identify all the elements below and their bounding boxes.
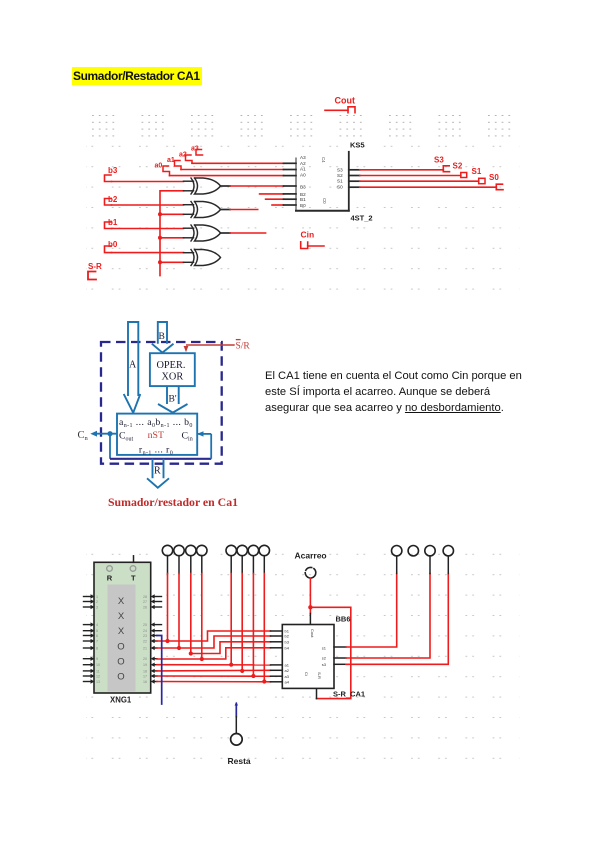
svg-text:13: 13 [96,680,100,684]
svg-text:A1: A1 [300,167,306,172]
svg-text:A2: A2 [300,161,306,166]
connector b3 [105,175,112,182]
svg-text:Cin: Cin [301,230,315,240]
wire jog to pin B0 [272,204,284,206]
svg-text:S0: S0 [337,185,343,190]
wire net8 to BB6 [157,681,271,683]
svg-text:O: O [117,642,124,653]
U5 right pin stubs [349,170,360,187]
svg-text:12: 12 [96,675,100,679]
arrow R [147,459,169,488]
svg-text:26: 26 [143,606,147,610]
svg-text:nST: nST [148,430,164,441]
terminal T10 [408,546,418,556]
svg-text:a4: a4 [285,680,290,685]
wire Cin feedback [210,434,212,459]
BB6 right pin stubs [334,647,346,664]
arrow B [152,322,174,353]
svg-text:2: 2 [96,600,98,604]
wire S/R vertical bus [160,191,184,276]
svg-text:a0: a0 [155,163,163,170]
wire b1 to gate U3 [112,228,184,230]
paragraph text [265,368,530,416]
svg-text:R: R [107,573,113,582]
wire b3 to gate U1 [112,181,184,183]
wire S0 [360,186,497,188]
terminal T7 [248,545,258,555]
svg-text:7: 7 [96,640,98,644]
connector Cout [325,107,355,113]
svg-text:B1: B1 [300,197,306,202]
terminal Acarreo [305,567,316,578]
xor gate U2 [184,202,221,218]
connector Cin [301,242,308,249]
connector S0 [496,184,503,190]
chip XNG1 body [94,562,151,693]
svg-text:R: R [154,466,161,477]
wire b0 to gate U4 [112,252,184,254]
connector b1 [105,222,112,229]
arrow A [124,322,141,413]
svg-text:O: O [117,657,124,668]
terminal T11 [425,546,435,556]
svg-text:a1: a1 [167,157,175,164]
wire net6 to BB6 [157,669,271,672]
junction dots [165,639,266,684]
XNG1 right pins [154,597,162,682]
svg-text:X: X [118,596,125,607]
terminal T4 [197,545,207,555]
svg-text:C4: C4 [321,157,326,163]
svg-text:X: X [118,626,125,637]
wire U2 output jog to pin B2 [221,209,231,211]
junction dots on S/R bus [158,212,162,264]
svg-text:5: 5 [96,629,98,633]
svg-text:A0: A0 [300,172,306,177]
terminal stems [168,556,265,574]
wire Cout feedback [96,433,117,435]
terminal T3 [186,545,196,555]
connector b0 [105,246,112,253]
wire acarreo around BB6 to S-R pin [310,607,350,698]
svg-text:25: 25 [143,623,147,627]
wire feedback bottom [110,458,211,460]
svg-text:B0: B0 [300,203,306,208]
terminal T9 [392,546,402,556]
wire acarreo to BB6 top pin [309,607,311,613]
connector a3 [196,150,203,156]
svg-text:B2: B2 [300,192,306,197]
svg-text:S/R: S/R [236,341,251,351]
svg-text:27: 27 [143,600,147,604]
svg-text:S-R_CA1: S-R_CA1 [333,690,365,699]
svg-text:17: 17 [143,675,147,679]
XNG1 R symbol [107,566,113,572]
svg-text:b3: b3 [108,166,118,175]
svg-text:Cout: Cout [335,96,356,106]
svg-text:Resta: Resta [228,756,251,766]
wire net2 to BB6 [157,636,271,648]
svg-text:4ST_2: 4ST_2 [351,214,373,223]
svg-text:X: X [118,611,125,622]
wire U3 output jog to pin B1 [221,232,231,234]
svg-text:KS5: KS5 [350,141,365,150]
svg-text:Sumador/restador en Ca1: Sumador/restador en Ca1 [108,495,238,509]
wire a0 to pin A0 [170,175,284,177]
svg-text:S-R: S-R [317,672,322,679]
XNG1 T symbol [130,566,136,572]
svg-text:4: 4 [96,623,98,627]
svg-text:19: 19 [143,663,147,667]
title bar [72,67,202,85]
svg-text:XNG1: XNG1 [110,696,132,705]
chip XNG1 center strip [108,585,136,692]
svg-text:T: T [131,573,136,582]
svg-text:18: 18 [143,670,147,674]
wire net5 to BB6 [157,664,271,666]
svg-text:10: 10 [96,663,100,667]
connector S3 [443,166,449,172]
wire a1 to pin A1 [181,169,284,171]
connector S2 [461,173,467,178]
connector a2 [186,155,193,163]
svg-text:b4: b4 [285,646,290,651]
adder IC U5 body [296,152,349,211]
wire blue select [157,636,162,705]
U5 internal labels [321,157,327,204]
U5 pin labels right [337,167,343,189]
wire S3 [360,169,444,171]
svg-text:8: 8 [96,647,98,651]
connector a0 [163,166,170,176]
svg-text:S3: S3 [434,156,444,165]
svg-text:C0: C0 [322,198,327,204]
wire acarreo down [309,578,311,607]
connector b2 [105,199,112,206]
terminal T2 [174,545,184,555]
wire S1 [360,180,479,182]
terminal T5 [226,545,236,555]
svg-text:28: 28 [143,595,147,599]
svg-text:9: 9 [96,657,98,661]
terminal T1 [162,545,172,555]
svg-text:b3: b3 [285,640,290,645]
svg-text:S-R: S-R [88,262,102,271]
svg-text:b2: b2 [285,634,290,639]
dashed block boundary [101,342,222,464]
svg-text:XOR: XOR [162,372,184,383]
junction acarreo [308,605,312,609]
svg-text:Acarreo: Acarreo [295,551,327,561]
svg-text:BB6: BB6 [336,615,351,624]
svg-text:b2: b2 [108,195,118,204]
connector a1 [175,161,182,170]
connector S-R [88,272,96,280]
svg-text:b0: b0 [108,240,118,249]
U5 pin labels left [300,155,306,208]
wire resta stem [235,717,237,734]
svg-text:S3: S3 [337,167,343,172]
svg-text:B': B' [169,395,177,405]
wire b2 to gate U2 [112,204,184,206]
svg-text:20: 20 [143,657,147,661]
arrow B' [158,386,188,413]
terminal T6 [237,545,247,555]
wire net1 to BB6 [157,631,271,641]
BB6 left pin stubs [271,631,283,682]
terminal T8 [259,545,269,555]
wire verticals from terminals [168,574,265,682]
wire U1 output to pin B3 [221,185,231,187]
wire S2 [360,175,461,177]
wire net3 to BB6 [191,642,271,654]
block OPER. XOR [150,353,195,386]
terminal Resta [231,734,243,746]
svg-text:A: A [129,360,137,371]
wire BB6 to T11 [346,574,430,659]
wire BB6 to T12 [346,574,448,665]
svg-text:24: 24 [143,629,147,633]
svg-text:B3: B3 [300,184,306,189]
svg-text:22: 22 [143,640,147,644]
xor gate U1 [184,178,221,194]
xor gate U4 [184,250,221,266]
wire net7 to BB6 [157,675,271,677]
wire BB6 to T9 [346,574,397,648]
svg-text:21: 21 [143,647,147,651]
XNG1 strip symbols [117,596,125,683]
svg-text:Cn: Cn [78,430,89,442]
svg-text:S2: S2 [337,173,343,178]
svg-text:S0: S0 [489,173,499,182]
svg-text:Ci: Ci [304,672,309,676]
block adder nST [117,414,197,455]
XNG1 top stub [133,556,135,563]
wire S/R select [186,344,235,346]
svg-text:a3: a3 [285,674,290,679]
svg-text:a2: a2 [285,668,290,673]
terminal T12 [443,546,453,556]
wire Cin [308,245,324,247]
chip BB6 body [282,625,334,689]
svg-text:a1: a1 [285,663,290,668]
XNG1 left pins [84,597,92,682]
svg-text:A3: A3 [300,155,306,160]
svg-text:S1: S1 [472,167,482,176]
svg-text:3: 3 [96,606,98,610]
svg-text:23: 23 [143,634,147,638]
svg-text:11: 11 [96,670,100,674]
svg-text:6: 6 [96,634,98,638]
svg-text:16: 16 [143,680,147,684]
XNG1 pin numbers [96,595,147,684]
svg-text:1: 1 [96,595,98,599]
svg-text:S1: S1 [337,179,343,184]
svg-text:OPER.: OPER. [157,360,186,371]
xor gate U3 [184,225,221,241]
svg-text:Cout: Cout [310,629,315,638]
wire blue resta stub [235,704,237,717]
svg-text:O: O [117,672,124,683]
connector S1 [479,178,485,183]
svg-text:B: B [159,332,165,342]
BB6 pin labels [285,629,327,685]
wire a2 to pin A2 [192,162,284,164]
svg-text:S2: S2 [453,161,463,170]
wire net4 to BB6 [157,648,271,659]
